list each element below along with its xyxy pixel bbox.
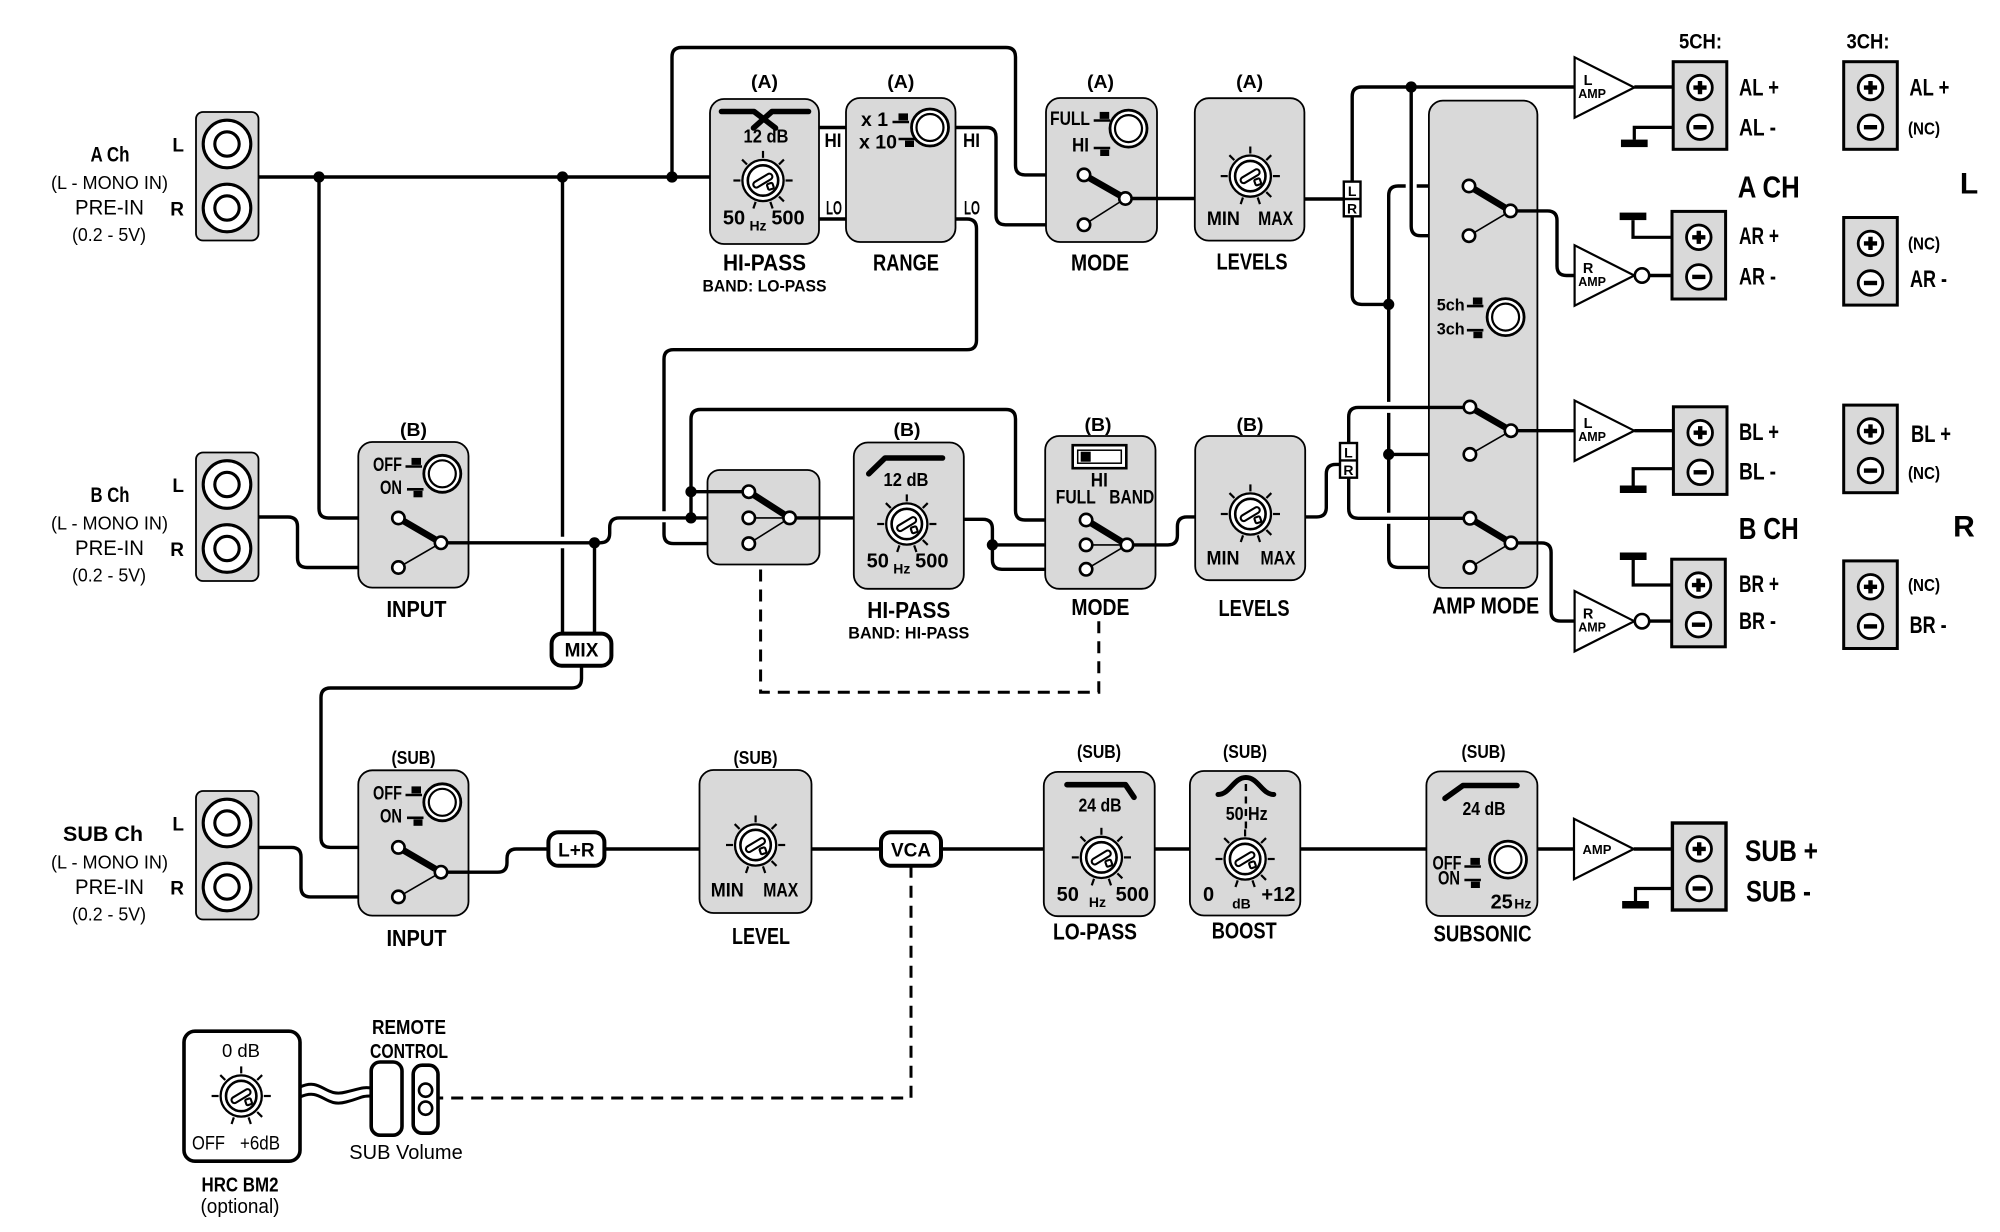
filter block HI-PASS (B), BAND: HI-PASS [854, 443, 964, 589]
svg-text:BL +: BL + [1911, 421, 1951, 448]
svg-text:(B): (B) [1237, 414, 1264, 435]
wire RANGE HI out to MODE(A) lower contact [956, 128, 1085, 225]
svg-text:FULL: FULL [1056, 487, 1096, 508]
svg-text:INPUT: INPUT [387, 925, 447, 951]
op-amp R AMP (A) inverting [1575, 245, 1635, 305]
wire AL- to ground [1634, 127, 1673, 139]
knob LEVEL (SUB) [726, 815, 785, 873]
svg-text:50 Hz: 50 Hz [1226, 804, 1268, 824]
svg-text:R: R [1343, 462, 1353, 478]
svg-text:500: 500 [771, 208, 804, 230]
svg-text:SUB Volume: SUB Volume [349, 1142, 462, 1164]
op-amp SUB AMP [1574, 819, 1634, 879]
svg-text:50: 50 [1057, 884, 1079, 906]
L/R splitter box (A) [1344, 182, 1361, 217]
svg-text:L: L [172, 815, 184, 836]
svg-text:LO: LO [964, 199, 980, 220]
svg-text:5ch: 5ch [1437, 297, 1465, 315]
svg-text:+12: +12 [1261, 884, 1295, 906]
junction A to MIX [557, 171, 568, 182]
L/R splitter box (B) [1340, 443, 1357, 478]
svg-text:(0.2 - 5V): (0.2 - 5V) [72, 224, 146, 245]
svg-text:HI: HI [825, 131, 842, 152]
wire INPUT(SUB) out to L+R [447, 849, 548, 872]
svg-text:AMP: AMP [1578, 275, 1606, 289]
svg-text:L: L [172, 136, 184, 157]
junction B rail to selector middle [685, 512, 696, 523]
ground BL- [1620, 486, 1647, 494]
block RANGE (A) [846, 98, 956, 242]
svg-text:12 dB: 12 dB [884, 470, 929, 490]
wire B full-range rail drop [691, 410, 701, 518]
ground BR+ [1620, 553, 1647, 561]
svg-text:ON: ON [380, 806, 402, 827]
svg-text:x 10: x 10 [859, 133, 897, 154]
wire R(A) down from splitter [1352, 216, 1389, 304]
svg-text:FULL: FULL [1050, 109, 1090, 130]
svg-text:HI-PASS: HI-PASS [867, 597, 950, 623]
svg-text:AR +: AR + [1739, 223, 1779, 250]
wire R(A) up to SW1 upper contact (hops L branch) [1389, 186, 1469, 304]
svg-text:MIN: MIN [711, 881, 744, 902]
svg-text:AMP: AMP [1578, 621, 1606, 635]
wire SUB AMP out to SUB+ [1634, 847, 1673, 850]
wire MIX out to INPUT(SUB) upper contact [321, 666, 582, 848]
svg-text:BL +: BL + [1739, 419, 1779, 446]
svg-text:A Ch: A Ch [91, 144, 130, 167]
svg-text:5CH:: 5CH: [1679, 31, 1722, 54]
RCA input connector A Ch [196, 112, 259, 241]
junction A to B-input [313, 171, 324, 182]
terminal block AL (3CH) [1844, 62, 1898, 150]
svg-text:R: R [1953, 511, 1975, 544]
terminal block AL (5CH) [1673, 62, 1727, 150]
filter block SUBSONIC (SUB) [1426, 771, 1537, 916]
svg-text:(NC): (NC) [1908, 234, 1940, 254]
switch MODE (A) [1084, 175, 1125, 225]
wire INPUT(B) out to band selector middle contact [447, 518, 749, 543]
wire branch to MODE(B) middle contact [992, 543, 1086, 546]
knob HI-PASS (B) frequency [877, 494, 936, 552]
svg-text:LEVELS: LEVELS [1217, 249, 1288, 275]
junction R(A) split [1383, 299, 1394, 310]
svg-text:BR -: BR - [1739, 608, 1776, 635]
wire HI-PASS(B) out to MODE(B) lower contact [964, 519, 1086, 569]
knob HI-PASS (A) frequency [733, 151, 792, 209]
wire SW2 out to L AMP (B) [1517, 429, 1574, 432]
wire B RCA out to INPUT(B) lower contact [259, 517, 399, 568]
lo-pass/hi-pass crossover icon [722, 112, 776, 129]
svg-text:(B): (B) [400, 419, 427, 440]
ground AL- [1621, 140, 1648, 148]
switch SW3 B-R source [1470, 518, 1511, 567]
svg-text:50: 50 [867, 551, 889, 573]
node MIX [552, 634, 612, 666]
switch INPUT (SUB) [398, 847, 441, 897]
block INPUT (SUB) [358, 770, 468, 915]
svg-text:Hz: Hz [749, 218, 766, 234]
knob BOOST (SUB) level [1216, 829, 1275, 887]
svg-text:24 dB: 24 dB [1463, 799, 1506, 819]
svg-text:AL +: AL + [1909, 75, 1949, 102]
svg-text:(SUB): (SUB) [392, 747, 436, 768]
boost bell icon [1218, 778, 1274, 795]
terminal block BL (3CH) [1844, 405, 1898, 493]
switch band selector (A) [749, 492, 790, 544]
wire R(B) down to SW3 upper contact [1349, 478, 1470, 519]
svg-text:25: 25 [1491, 892, 1513, 914]
hi-pass slope icon [869, 458, 943, 474]
svg-text:HRC BM2: HRC BM2 [202, 1175, 279, 1197]
svg-text:R: R [1347, 201, 1357, 217]
svg-text:(B): (B) [894, 419, 921, 440]
wire BL- to ground [1633, 469, 1673, 486]
svg-text:(B): (B) [1085, 414, 1112, 435]
svg-text:MODE: MODE [1071, 250, 1129, 276]
svg-text:(A): (A) [751, 71, 778, 92]
wire R AMP out to AR- [1649, 274, 1672, 277]
wire BOOST to SUBSONIC [1300, 847, 1426, 850]
svg-text:500: 500 [1116, 884, 1149, 906]
wire LO-PASS to BOOST [1155, 847, 1190, 850]
svg-text:LO-PASS: LO-PASS [1053, 918, 1137, 944]
wire L(A) branch down to amp-mode SW1 lower contact [1411, 87, 1469, 236]
svg-text:AL +: AL + [1739, 75, 1779, 102]
svg-text:0: 0 [1203, 884, 1214, 906]
svg-text:HI-PASS: HI-PASS [723, 250, 806, 276]
junction HI-PASS(B) out split [987, 539, 998, 550]
svg-text:R: R [170, 879, 184, 900]
dashed link band selector to MODE(B) [761, 570, 1099, 693]
wire VCA to LO-PASS [941, 847, 1044, 850]
wire A-Ch main [259, 175, 711, 178]
svg-text:LEVEL: LEVEL [732, 923, 790, 949]
RCA input connector SUB Ch [196, 791, 259, 920]
svg-text:RANGE: RANGE [873, 250, 939, 276]
svg-text:50: 50 [723, 208, 745, 230]
svg-text:L: L [1960, 168, 1978, 201]
svg-text:dB: dB [1232, 896, 1251, 912]
svg-text:AMP: AMP [1578, 430, 1606, 444]
wire SUB- to ground [1636, 889, 1673, 902]
svg-text:(SUB): (SUB) [1223, 741, 1267, 762]
wire A full-range rail to MODE(A) upper contact [672, 48, 1084, 178]
lo-pass slope icon [1067, 785, 1134, 798]
wire LEVELS(A) out to L/R splitter A [1304, 197, 1343, 200]
svg-text:(0.2 - 5V): (0.2 - 5V) [72, 904, 146, 925]
button INPUT(SUB) OFF/ON [424, 784, 461, 821]
block LEVELS (B) [1195, 436, 1305, 580]
wire B branch down to MIX [593, 543, 596, 634]
svg-text:PRE-IN: PRE-IN [75, 536, 144, 560]
filter block BOOST (SUB) [1190, 771, 1300, 916]
ground SUB- [1622, 901, 1649, 909]
wire selector out to HI-PASS (B) [796, 516, 854, 519]
button AMP MODE 5ch/3ch [1487, 299, 1524, 336]
block LEVEL (SUB) [700, 770, 812, 913]
block MODE (A) [1046, 98, 1157, 242]
wire MODE(A) out to LEVELS(A) [1125, 197, 1194, 200]
svg-text:24 dB: 24 dB [1079, 796, 1122, 816]
svg-text:(NC): (NC) [1908, 463, 1940, 483]
svg-text:SUB Ch: SUB Ch [63, 823, 143, 846]
svg-text:LEVELS: LEVELS [1219, 595, 1290, 621]
svg-text:(A): (A) [1087, 71, 1114, 92]
wire HI-PASS LO out to RANGE [819, 217, 846, 220]
svg-text:3CH:: 3CH: [1847, 31, 1890, 54]
svg-text:(A): (A) [1236, 71, 1263, 92]
wire ground to AR+ [1633, 220, 1672, 237]
wire SW1 out to R AMP (A) [1517, 211, 1575, 276]
svg-text:CONTROL: CONTROL [370, 1041, 448, 1063]
svg-text:OFF: OFF [373, 784, 402, 805]
svg-text:(SUB): (SUB) [734, 747, 778, 768]
knob LEVELS (A) [1221, 147, 1280, 205]
wire HI-PASS HI out to RANGE [819, 126, 846, 129]
switch MODE (B) [1086, 520, 1127, 569]
terminal block BR (3CH) [1844, 561, 1898, 649]
svg-text:SUB +: SUB + [1745, 835, 1818, 868]
wire SUB RCA out to INPUT(SUB) lower contact [259, 847, 399, 897]
svg-text:(optional): (optional) [201, 1196, 280, 1218]
wire rail to selector upper contact [691, 490, 749, 493]
junction B to MIX [589, 537, 600, 548]
svg-text:MIN: MIN [1207, 209, 1240, 230]
svg-text:(0.2 - 5V): (0.2 - 5V) [72, 565, 146, 586]
dashed link VCA to remote control [438, 866, 911, 1098]
junction R(A) to SW2 [1383, 449, 1394, 460]
switch SW2 B-L source [1470, 407, 1511, 454]
svg-text:(SUB): (SUB) [1077, 741, 1121, 762]
subsonic hi-pass slope icon [1445, 786, 1517, 799]
wire ground to BR+ [1633, 560, 1672, 585]
svg-text:L+R: L+R [558, 840, 595, 861]
svg-text:MAX: MAX [1258, 209, 1293, 230]
block AMP MODE [1429, 101, 1538, 588]
switch SW1 A-R source [1469, 186, 1511, 236]
svg-text:ON: ON [1438, 869, 1460, 890]
wire SUBSONIC to SUB AMP [1537, 847, 1574, 850]
node L+R summing [548, 832, 604, 866]
svg-text:AMP MODE: AMP MODE [1432, 593, 1539, 619]
svg-text:LO: LO [826, 199, 842, 220]
svg-text:MODE: MODE [1071, 594, 1129, 620]
wire L+R to LEVEL(SUB) [604, 847, 699, 850]
svg-text:Hz: Hz [1089, 894, 1106, 910]
slide switch icon MODE(B) [1073, 445, 1127, 468]
connector remote plug [371, 1062, 402, 1135]
wire R AMP(B) out to BR- [1649, 619, 1671, 622]
svg-text:BAND: BAND [1109, 487, 1154, 508]
svg-text:L: L [172, 476, 184, 497]
svg-text:SUB -: SUB - [1746, 876, 1811, 909]
op-amp L AMP (B) [1575, 401, 1635, 461]
svg-text:(NC): (NC) [1908, 119, 1940, 139]
svg-text:+6dB: +6dB [240, 1134, 280, 1155]
svg-text:MAX: MAX [763, 881, 798, 902]
boost center-frequency dashed line [1245, 784, 1247, 830]
svg-text:PRE-IN: PRE-IN [75, 196, 144, 220]
svg-text:L: L [1348, 183, 1357, 199]
op-amp R AMP (B) inverting [1575, 591, 1635, 651]
svg-text:(A): (A) [887, 71, 914, 92]
svg-text:AMP: AMP [1578, 87, 1606, 101]
wire RANGE LO out to band selector lower contact (hops B wire) [664, 219, 977, 544]
svg-text:3ch: 3ch [1437, 321, 1465, 339]
button MODE(A) FULL/HI [1110, 110, 1147, 147]
terminal block BR (5CH) [1672, 559, 1726, 647]
svg-text:x 1: x 1 [861, 110, 888, 131]
svg-text:SUBSONIC: SUBSONIC [1434, 921, 1532, 947]
svg-text:HI: HI [963, 131, 980, 152]
svg-text:ON: ON [380, 478, 402, 499]
svg-text:MIN: MIN [1207, 548, 1240, 569]
svg-text:R: R [170, 200, 184, 221]
svg-text:B Ch: B Ch [91, 484, 130, 507]
block MODE (B) [1045, 436, 1155, 589]
knob HRC BM2 level [212, 1066, 271, 1124]
terminal block AR (3CH) [1844, 218, 1898, 306]
svg-text:OFF: OFF [373, 455, 402, 476]
svg-text:AL -: AL - [1739, 114, 1776, 141]
svg-text:REMOTE: REMOTE [372, 1017, 446, 1039]
wire L AMP(B) out to BL+ [1634, 429, 1673, 432]
block band selector (A) [708, 470, 820, 565]
svg-text:AR -: AR - [1739, 263, 1776, 290]
svg-text:L: L [1344, 444, 1353, 460]
knob LO-PASS (SUB) frequency [1072, 828, 1131, 886]
svg-text:BR -: BR - [1910, 612, 1947, 639]
svg-text:VCA: VCA [891, 840, 931, 861]
terminal block AR (5CH) [1672, 211, 1726, 299]
svg-text:(L - MONO IN): (L - MONO IN) [51, 172, 168, 193]
RCA input connector B Ch [196, 453, 259, 582]
svg-text:Hz: Hz [893, 561, 910, 577]
wire R(A) branch to SW2 lower contact [1389, 453, 1470, 456]
terminal block BL (5CH) [1673, 407, 1727, 495]
wire B full-range rail to MODE(B) upper contact [701, 410, 1087, 521]
svg-text:(L - MONO IN): (L - MONO IN) [51, 513, 168, 534]
svg-text:AMP: AMP [1583, 842, 1612, 857]
block LEVELS (A) [1195, 98, 1305, 240]
svg-text:BOOST: BOOST [1212, 918, 1277, 944]
button INPUT(B) OFF/ON [424, 455, 461, 492]
svg-text:BR +: BR + [1739, 571, 1779, 598]
ground AR+ [1620, 213, 1647, 221]
svg-text:(SUB): (SUB) [1462, 741, 1506, 762]
block INPUT (B) [358, 442, 468, 588]
node VCA [881, 832, 941, 866]
svg-text:MIX: MIX [565, 641, 599, 662]
op-amp L AMP (A) [1575, 57, 1635, 117]
svg-text:(NC): (NC) [1908, 575, 1940, 595]
switch contact circles [1078, 169, 1090, 181]
connector remote socket [413, 1065, 438, 1133]
terminal block SUB [1672, 823, 1726, 910]
svg-text:PRE-IN: PRE-IN [75, 875, 144, 899]
svg-text:AR -: AR - [1910, 266, 1947, 293]
wire SW3 out to R AMP (B) [1517, 543, 1574, 621]
svg-text:OFF: OFF [192, 1134, 225, 1155]
svg-text:R: R [170, 540, 184, 561]
svg-text:A CH: A CH [1738, 170, 1800, 205]
wire L(A) up to L AMP [1352, 87, 1574, 182]
svg-text:(L - MONO IN): (L - MONO IN) [51, 852, 168, 873]
button SUBSONIC OFF/ON [1490, 841, 1527, 878]
junction B rail to selector upper [685, 486, 696, 497]
wire L AMP out to AL+ [1634, 85, 1673, 88]
svg-text:Hz: Hz [1514, 896, 1531, 912]
block HRC BM2 remote knob [184, 1031, 300, 1161]
svg-text:500: 500 [915, 551, 948, 573]
svg-text:B CH: B CH [1739, 511, 1799, 546]
svg-text:12 dB: 12 dB [744, 127, 789, 147]
junction L(A) split [1406, 81, 1417, 92]
svg-text:HI: HI [1072, 136, 1089, 157]
wire R(A) down to SW3 lower contact (hops B wires) [1389, 304, 1470, 567]
svg-text:MAX: MAX [1261, 548, 1296, 569]
filter block LO-PASS (SUB) [1044, 772, 1155, 916]
wire A branch to MIX (hops B wire) [561, 177, 564, 634]
filter block HI-PASS (A), BAND: LO-PASS [710, 99, 819, 244]
junction A to full-range rail [666, 171, 677, 182]
wire L(B) up to SW2 upper contact [1349, 407, 1470, 443]
switch INPUT (B) [398, 518, 441, 568]
svg-text:0 dB: 0 dB [222, 1040, 260, 1061]
knob LEVELS (B) [1221, 484, 1280, 542]
svg-text:BL -: BL - [1739, 459, 1776, 486]
wire MODE(B) out to LEVELS(B) [1133, 517, 1195, 545]
cable HRC to remote [300, 1084, 371, 1093]
button RANGE x1/x10 [912, 109, 949, 146]
wire A branch to INPUT(B) upper contact [319, 177, 398, 518]
svg-text:INPUT: INPUT [387, 596, 447, 622]
svg-text:BAND: HI-PASS: BAND: HI-PASS [848, 624, 969, 643]
svg-text:BAND: LO-PASS: BAND: LO-PASS [703, 277, 827, 296]
wire LEVELS(B) out to L/R splitter B [1305, 464, 1340, 517]
wire LEVEL(SUB) to VCA [812, 847, 882, 850]
